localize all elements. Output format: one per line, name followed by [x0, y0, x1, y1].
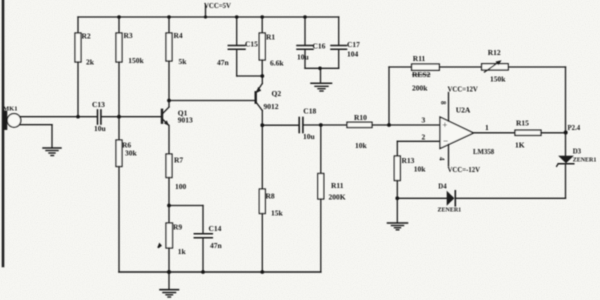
svg-text:C15: C15: [245, 40, 258, 49]
svg-text:R12: R12: [488, 48, 501, 57]
svg-text:200k: 200k: [412, 84, 428, 93]
svg-text:RES2: RES2: [412, 70, 431, 79]
svg-text:200K: 200K: [329, 193, 346, 202]
svg-text:6.6k: 6.6k: [270, 59, 284, 68]
svg-text:−: −: [443, 136, 448, 146]
svg-text:R10: R10: [354, 113, 367, 122]
svg-text:9013: 9013: [178, 116, 193, 125]
svg-text:R11: R11: [413, 54, 426, 63]
svg-text:LM358: LM358: [473, 149, 495, 156]
svg-text:1: 1: [485, 123, 489, 132]
svg-text:R7: R7: [174, 156, 183, 165]
svg-text:10u: 10u: [303, 132, 315, 141]
svg-text:100: 100: [175, 182, 187, 191]
svg-text:D4: D4: [438, 184, 447, 191]
svg-text:R15: R15: [516, 119, 529, 128]
svg-text:3: 3: [422, 116, 426, 125]
svg-text:D3: D3: [573, 149, 582, 156]
svg-text:ZENER1: ZENER1: [573, 158, 597, 164]
svg-text:Q2: Q2: [272, 89, 282, 98]
svg-text:+: +: [442, 120, 447, 130]
svg-text:VCC=5V: VCC=5V: [204, 3, 231, 10]
svg-text:10k: 10k: [414, 165, 427, 174]
svg-text:R4: R4: [174, 31, 183, 40]
svg-text:10k: 10k: [355, 141, 368, 150]
svg-text:47n: 47n: [217, 58, 230, 67]
svg-text:8: 8: [439, 101, 447, 105]
svg-text:9012: 9012: [264, 102, 279, 111]
svg-text:C18: C18: [303, 107, 316, 116]
svg-text:R9: R9: [173, 223, 182, 232]
svg-text:150k: 150k: [128, 56, 144, 65]
svg-text:P2.4: P2.4: [568, 125, 581, 132]
svg-text:R3: R3: [124, 31, 133, 40]
svg-text:R11: R11: [331, 181, 344, 190]
svg-text:C13: C13: [92, 100, 105, 109]
svg-text:2: 2: [422, 133, 426, 142]
svg-text:R8: R8: [266, 192, 275, 201]
svg-text:10u: 10u: [94, 124, 106, 133]
svg-text:C16: C16: [313, 42, 326, 51]
svg-text:10u: 10u: [297, 53, 309, 62]
svg-text:30k: 30k: [125, 149, 138, 158]
svg-text:VCC=12V: VCC=12V: [448, 87, 478, 94]
svg-text:C17: C17: [347, 40, 360, 49]
svg-text:5k: 5k: [179, 57, 188, 66]
svg-text:47n: 47n: [210, 241, 223, 250]
svg-text:15k: 15k: [271, 209, 284, 218]
svg-text:C14: C14: [209, 224, 222, 233]
svg-text:ZENER1: ZENER1: [438, 208, 462, 214]
svg-text:1k: 1k: [178, 247, 187, 256]
svg-text:MK1: MK1: [3, 106, 17, 113]
svg-text:2k: 2k: [86, 58, 95, 67]
svg-text:4: 4: [438, 157, 446, 161]
svg-text:1K: 1K: [515, 141, 525, 150]
svg-text:R13: R13: [402, 156, 415, 165]
svg-text:R1: R1: [266, 33, 275, 42]
svg-text:104: 104: [347, 50, 359, 59]
svg-text:U2A: U2A: [456, 105, 471, 114]
svg-text:150k: 150k: [490, 74, 506, 83]
svg-text:R2: R2: [82, 32, 91, 41]
svg-text:VCC=-12V: VCC=-12V: [448, 167, 481, 174]
